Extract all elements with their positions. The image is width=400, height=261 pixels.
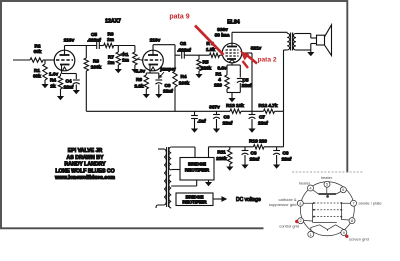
svg-text:R7: R7 <box>108 55 114 60</box>
potentiometer R7 1m <box>117 46 119 53</box>
svg-text:DC voltage: DC voltage <box>236 197 261 203</box>
ground bridge1 <box>205 182 212 186</box>
wire C2 branch <box>175 54 180 56</box>
svg-text:216v: 216v <box>64 38 75 43</box>
ground R11 <box>226 167 233 171</box>
resistor R11 220k <box>229 147 231 150</box>
svg-text:2.2k: 2.2k <box>134 84 144 89</box>
ground EL84 cathode <box>228 98 235 102</box>
svg-text:C9: C9 <box>165 83 171 88</box>
svg-text:R3: R3 <box>93 59 99 64</box>
svg-text:C4: C4 <box>66 79 72 84</box>
svg-text:220k: 220k <box>216 156 227 161</box>
svg-text:jumper: jumper <box>159 67 176 72</box>
power transformer primary <box>164 149 166 205</box>
capacitor .1uf <box>191 115 198 117</box>
ground C6 <box>241 165 248 169</box>
capacitor C6 22uf <box>244 147 246 151</box>
wire R6 to pots <box>114 45 135 47</box>
wire R4 to rail <box>174 87 176 111</box>
svg-text:R1: R1 <box>216 72 222 77</box>
wire cathode bottoms join <box>226 89 228 93</box>
capacitor C5 .022uf <box>96 42 98 49</box>
ground R1 <box>41 84 48 88</box>
svg-text:RANDY LANDRY: RANDY LANDRY <box>64 162 106 168</box>
svg-text:R2: R2 <box>35 44 41 49</box>
pin 9 <box>341 230 347 236</box>
OT core <box>290 33 292 51</box>
capacitor C4 22uf <box>73 79 80 81</box>
inset heater V <box>320 225 336 230</box>
capacitor C7 22uf <box>251 111 253 114</box>
speaker <box>317 35 325 45</box>
capacitor C2 .022uf <box>181 52 183 59</box>
capacitor C5 22uf (EL84 cathode) <box>237 78 244 80</box>
heater V2 <box>151 67 155 71</box>
wire input to V1 grid <box>13 59 30 61</box>
svg-text:R12 4.7k: R12 4.7k <box>258 103 277 108</box>
inset cathode line <box>313 222 337 224</box>
svg-text:22uf: 22uf <box>258 121 268 126</box>
svg-text:LONE WOLF BLUES CO: LONE WOLF BLUES CO <box>55 168 114 174</box>
inset red dot pin2 <box>295 220 298 223</box>
capacitor C9 22uf (psu) <box>276 147 278 151</box>
svg-text:38 lma: 38 lma <box>215 33 230 38</box>
svg-text:1.0v: 1.0v <box>49 72 59 77</box>
svg-text:330v: 330v <box>217 27 228 32</box>
svg-text:22uf: 22uf <box>223 121 233 126</box>
triode V1a 12AX7 <box>54 50 75 71</box>
svg-text:1.8v: 1.8v <box>136 69 146 74</box>
ground R9 <box>143 94 150 98</box>
svg-text:68k: 68k <box>33 74 41 79</box>
wire DC voltage arrow <box>213 198 226 200</box>
svg-text:C8: C8 <box>224 115 230 120</box>
svg-text:C9: C9 <box>283 151 289 156</box>
svg-text:R10 220: R10 220 <box>249 139 267 144</box>
capacitor C8 22uf <box>216 111 218 114</box>
svg-text:screen grid: screen grid <box>349 237 369 242</box>
pin 8 <box>349 218 355 224</box>
svg-text:C6: C6 <box>251 151 257 156</box>
svg-text:BRIDGE: BRIDGE <box>186 194 204 199</box>
ground C8 <box>213 129 220 133</box>
resistor R8 1.5k <box>210 53 220 57</box>
svg-text:1m: 1m <box>107 37 114 42</box>
bridge rectifier 2 <box>176 193 213 206</box>
wire C5 to R6 <box>99 45 103 47</box>
svg-text:100k: 100k <box>179 81 190 86</box>
svg-text:.022uf: .022uf <box>87 38 101 43</box>
svg-text:www.lonewolfblues.com: www.lonewolfblues.com <box>54 175 115 181</box>
resistor R3 100k (plate load) <box>85 46 87 59</box>
svg-text:22uf: 22uf <box>64 85 74 90</box>
svg-text:22uf: 22uf <box>242 83 252 88</box>
inset dashed top edge <box>292 171 364 173</box>
wire B+ rail 307v <box>86 110 230 112</box>
resistor R12 4.7k <box>264 109 275 113</box>
wire B+ vertical to lower rail <box>283 111 285 147</box>
svg-text:suppressor grid: suppressor grid <box>269 202 297 207</box>
ground speaker return <box>310 50 312 52</box>
pin 7 <box>351 200 357 206</box>
svg-text:heater: heater <box>299 181 311 186</box>
ground R4 <box>57 96 64 100</box>
inset connection wires <box>303 190 350 231</box>
wire grid junction down <box>44 60 46 64</box>
bridge rectifier 1 <box>180 158 214 181</box>
svg-text:1m: 1m <box>122 58 129 63</box>
resistor R4 100k (V2 plate load) <box>173 71 177 87</box>
svg-text:1.5k: 1.5k <box>206 47 216 52</box>
svg-text:C5: C5 <box>243 78 249 83</box>
svg-text:R5: R5 <box>203 60 209 65</box>
svg-text:EPI VALVE JR: EPI VALVE JR <box>68 148 103 154</box>
resistor R2 68k <box>30 58 43 62</box>
wire V2 cathode node <box>150 72 159 74</box>
svg-text:22uf: 22uf <box>250 157 260 162</box>
svg-text:anode / plate: anode / plate <box>359 201 383 206</box>
svg-text:22uf: 22uf <box>163 89 173 94</box>
wire EL84 cathode node <box>231 63 233 65</box>
svg-text:AS DRAWN BY: AS DRAWN BY <box>67 155 104 161</box>
ground .1uf <box>191 129 198 133</box>
svg-text:4: 4 <box>218 77 221 82</box>
svg-text:C5: C5 <box>91 32 97 37</box>
svg-text:R4: R4 <box>50 78 56 83</box>
wire screen to rail <box>242 52 253 54</box>
pin 4 <box>308 185 314 191</box>
wire 216v bus stage1 <box>65 45 97 47</box>
ground R1 pot <box>131 69 138 73</box>
wire lower rail <box>264 146 284 148</box>
tube basing circle EL84 <box>300 182 354 236</box>
svg-text:BRIDGE: BRIDGE <box>188 162 206 167</box>
wire bridge1 top right to rail <box>208 147 210 158</box>
PT secondary lower <box>169 175 171 208</box>
svg-text:R1: R1 <box>123 52 129 57</box>
svg-text:R1: R1 <box>34 68 40 73</box>
svg-text:2k: 2k <box>50 84 56 89</box>
resistor R9 2.2k <box>144 75 148 89</box>
svg-text:R4: R4 <box>181 74 187 79</box>
svg-text:R11: R11 <box>217 150 226 155</box>
ground C7 <box>248 129 255 133</box>
pin 5 <box>324 181 330 187</box>
svg-text:EL84: EL84 <box>227 20 240 26</box>
wire OT primary bottom to B+ <box>284 49 288 51</box>
potentiometer R1 1m (volume) <box>134 46 136 53</box>
svg-text:100k: 100k <box>91 65 102 70</box>
PT core <box>166 147 168 207</box>
frame border <box>1 1 347 228</box>
resistor R5 220k <box>198 55 200 59</box>
wire wiper to V2 grid <box>141 59 143 61</box>
pin 6 <box>340 187 346 193</box>
resistor R10 220 <box>253 145 264 149</box>
ground C9 <box>155 94 162 98</box>
pentode EL84 <box>222 43 242 63</box>
wire secondary to speaker <box>296 33 311 35</box>
pin 1 <box>308 231 314 237</box>
resistor R6 1m <box>104 43 114 47</box>
pin 2 <box>298 218 304 224</box>
wire R3 to B+ rail <box>85 71 87 111</box>
svg-text:9.6v: 9.6v <box>217 66 227 71</box>
wire cathode node <box>62 73 77 75</box>
svg-text:68k: 68k <box>34 49 42 54</box>
svg-text:.1uf: .1uf <box>197 119 206 124</box>
capacitor C9 22uf jumper <box>155 79 162 81</box>
svg-text:pata 2: pata 2 <box>257 56 276 63</box>
wire plate to OT <box>232 31 287 33</box>
inset white panel <box>264 173 400 261</box>
svg-text:220k: 220k <box>201 66 212 71</box>
inset grid dashed lines <box>314 202 342 204</box>
svg-text:control grid: control grid <box>279 224 299 229</box>
inset internal anode bar <box>319 193 337 195</box>
svg-text:1m: 1m <box>108 60 115 65</box>
resistor R1 68k <box>43 64 47 80</box>
svg-text:RECTIFIER: RECTIFIER <box>182 200 207 205</box>
svg-text:R6: R6 <box>108 32 114 37</box>
ground C4 <box>73 90 80 94</box>
wire V2 plate bus <box>153 44 175 46</box>
wire bridge1 bottom <box>196 180 198 186</box>
svg-text:220: 220 <box>214 83 222 88</box>
svg-text:216v: 216v <box>150 38 161 43</box>
svg-text:RECTIFIER: RECTIFIER <box>185 168 210 173</box>
svg-text:321v: 321v <box>251 46 262 51</box>
PT secondary upper <box>169 147 171 170</box>
resistor R14 220 <box>225 75 229 89</box>
wire secondary to bridge <box>171 146 195 148</box>
heater V1 <box>63 67 67 71</box>
svg-text:pata 9: pata 9 <box>169 14 189 21</box>
output transformer secondary <box>293 34 296 51</box>
ground R7 <box>115 69 122 73</box>
pin 3 <box>297 200 303 206</box>
svg-text:C2: C2 <box>180 41 186 46</box>
triode V1b 12AX7 <box>143 50 164 71</box>
resistor R13 10k <box>230 109 241 113</box>
svg-text:R9: R9 <box>136 77 142 82</box>
ground R5 <box>195 74 202 78</box>
inset red dot pin9 <box>345 235 348 238</box>
output transformer primary <box>287 33 290 50</box>
svg-text:307v: 307v <box>209 105 220 110</box>
svg-text:22uf: 22uf <box>282 157 292 162</box>
svg-text:heater: heater <box>321 175 333 180</box>
svg-text:C7: C7 <box>259 115 265 120</box>
svg-text:.022uf: .022uf <box>177 48 191 53</box>
svg-text:R13 10k: R13 10k <box>226 103 244 108</box>
resistor R4 2k (cathode) <box>58 76 62 89</box>
ground C9 psu <box>273 165 280 169</box>
svg-text:12AX7: 12AX7 <box>105 19 121 25</box>
